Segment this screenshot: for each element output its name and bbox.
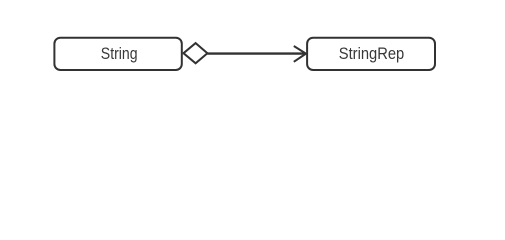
class box StringRep — [307, 38, 435, 70]
svg-text:String: String — [101, 44, 138, 63]
open arrowhead — [294, 46, 306, 62]
svg-text:StringRep: StringRep — [339, 44, 405, 63]
class box String — [54, 38, 181, 70]
wire association line — [207, 52, 305, 54]
aggregation diamond — [184, 43, 208, 63]
